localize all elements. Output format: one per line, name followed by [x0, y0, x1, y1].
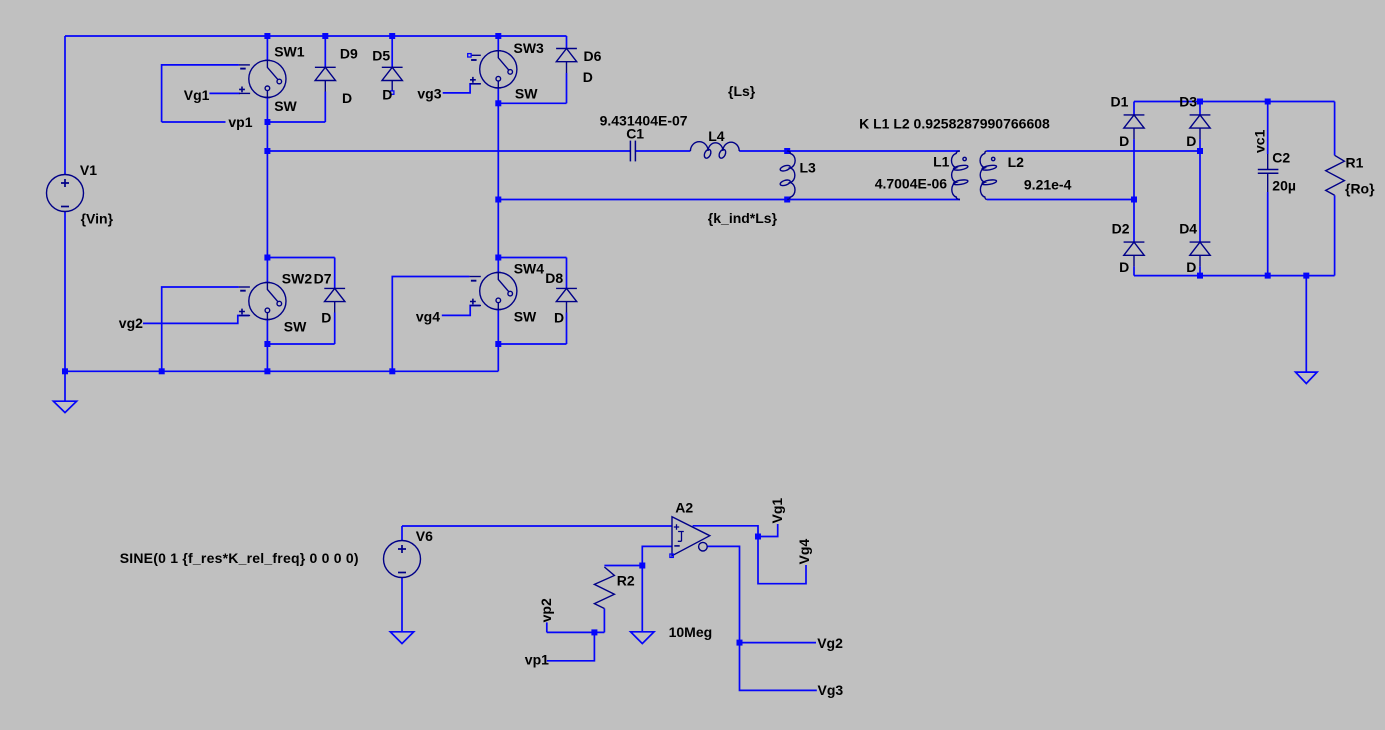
svg-text:D: D	[1119, 259, 1129, 275]
junction output bottom rail / C2	[1265, 273, 1271, 279]
diode D7	[324, 288, 345, 312]
wire SW2 top row to D7	[267, 257, 334, 259]
wire V6 lead top	[401, 526, 403, 541]
wire SW4 top row to D8	[498, 257, 566, 259]
svg-text:SW: SW	[514, 309, 537, 325]
wire L2 top to D3 column	[987, 150, 1200, 152]
svg-text:vc1: vc1	[1251, 129, 1267, 153]
junction output bottom rail / D4	[1197, 273, 1203, 279]
wire D9 column top	[324, 36, 326, 67]
wire bottom rail	[65, 370, 498, 372]
wire D9 column bottom	[324, 92, 326, 123]
svg-text:Vg1: Vg1	[184, 87, 210, 103]
wire vg4 to SW4 plus	[442, 306, 480, 316]
junction top rail / D9	[322, 33, 328, 39]
svg-text:L1: L1	[933, 154, 950, 170]
svg-text:20µ: 20µ	[1272, 178, 1296, 194]
svg-text:D: D	[583, 69, 593, 85]
wire SW2 control loop	[162, 287, 239, 371]
wire output ground stub	[1305, 276, 1307, 373]
junction output bottom rail / ground	[1303, 273, 1309, 279]
svg-text:10Meg: 10Meg	[669, 624, 713, 640]
junction output top rail / C2	[1265, 99, 1271, 105]
svg-text:L4: L4	[708, 128, 725, 144]
svg-text:V1: V1	[80, 162, 97, 178]
wire Vg3 path	[740, 643, 817, 691]
svg-text:SW: SW	[284, 318, 307, 334]
wire SW2 column bottom	[266, 320, 268, 372]
svg-text:D6: D6	[584, 48, 602, 64]
junction A2 minus node	[639, 563, 645, 569]
svg-text:vp1: vp1	[228, 114, 252, 130]
svg-text:C2: C2	[1272, 150, 1290, 166]
junction upper bus / L3 top	[784, 148, 790, 154]
junction vp1 node	[264, 119, 270, 125]
wire lower bus	[498, 199, 960, 201]
junction lower bus / L3 bottom	[784, 197, 790, 203]
wire R1 lead bottom	[1334, 195, 1336, 275]
svg-text:D9: D9	[340, 45, 358, 61]
wire Vg4 path	[758, 537, 806, 584]
label background vp1 top	[226, 115, 265, 129]
wire D3 lead top	[1199, 102, 1201, 115]
wire vp1 row	[162, 121, 326, 123]
diode D4	[1190, 242, 1211, 266]
wire SW4 column bottom	[497, 310, 499, 372]
diode D3	[1190, 115, 1211, 139]
op-amp A2	[672, 517, 710, 556]
junction bottom rail / V1	[62, 368, 68, 374]
wire D1-D2 column middle	[1133, 139, 1135, 242]
junction SW2 top node	[264, 255, 270, 261]
ground V6	[390, 632, 413, 644]
diode D9	[315, 67, 336, 91]
svg-text:D: D	[1186, 259, 1196, 275]
svg-text:A2: A2	[675, 499, 693, 515]
wire Vg1 to SW1 plus	[209, 92, 240, 94]
open pin SW3 minus	[468, 54, 471, 57]
wire D7 column bottom	[334, 313, 336, 345]
switch SW2	[239, 282, 286, 319]
junction lower bus / SW3 column	[495, 197, 501, 203]
wire SW1 column top	[266, 36, 268, 60]
open pin D5 anode	[391, 91, 394, 94]
wire Vg1 stub	[758, 524, 778, 537]
svg-text:SW: SW	[515, 86, 538, 102]
wire D7 column top	[334, 258, 336, 289]
junction Vg2 node	[737, 640, 743, 646]
wire D3-D4 column middle	[1199, 139, 1201, 242]
wire SW2 bottom row	[267, 343, 334, 345]
wire SW4 bottom row	[498, 343, 566, 345]
wire SW1-SW2 column	[266, 97, 268, 282]
wire D5 column top	[391, 36, 393, 67]
diode D1	[1124, 115, 1145, 139]
wire R2 lead bottom	[603, 609, 605, 633]
wire vp2 row to R2	[547, 631, 605, 633]
junction SW2 bottom node	[264, 341, 270, 347]
wire C2 lead bottom	[1267, 192, 1269, 276]
svg-text:{Ro}: {Ro}	[1345, 180, 1375, 196]
wire SW1 control loop	[162, 65, 239, 122]
svg-text:D: D	[321, 309, 331, 325]
inductor L4	[690, 142, 739, 159]
svg-text:D3: D3	[1179, 94, 1197, 110]
svg-text:D7: D7	[314, 270, 332, 286]
wire V1 column bottom	[64, 211, 66, 371]
svg-text:SW3: SW3	[514, 40, 545, 56]
wire V6 to A2 plus input	[402, 525, 672, 527]
junction top rail / SW1	[264, 33, 270, 39]
junction upper bus / SW1 column	[264, 148, 270, 154]
inductor L2 (transformer secondary)	[980, 151, 997, 200]
svg-text:D4: D4	[1179, 221, 1197, 237]
svg-text:vp2: vp2	[538, 598, 554, 622]
svg-text:D5: D5	[372, 47, 390, 63]
wire D8 column bottom	[566, 313, 568, 345]
wire R1 lead top	[1334, 102, 1336, 156]
wire V1 ground stub	[64, 371, 66, 401]
svg-text:SW: SW	[274, 98, 297, 114]
wire A2 bubble output	[707, 546, 739, 642]
wire SW3 bottom row to D6	[498, 102, 566, 104]
wire output bottom rail	[1134, 275, 1335, 277]
ground output	[1296, 372, 1318, 383]
switch SW1	[239, 60, 286, 97]
junction upper bus end / D3 column	[1197, 148, 1203, 154]
wire R2 top row	[604, 565, 642, 567]
wire Vg2 row	[740, 642, 817, 644]
junction SW4 bottom node	[495, 341, 501, 347]
wire D2 lead bottom	[1133, 266, 1135, 275]
svg-text:D: D	[554, 309, 564, 325]
wire C2 lead top	[1267, 102, 1269, 155]
diode D6	[556, 49, 577, 74]
wire D1 lead top	[1133, 102, 1135, 115]
wire V6 lead bottom	[401, 578, 403, 632]
open pin A2 bottom	[670, 554, 673, 557]
wire upper bus left of C1	[267, 150, 630, 152]
ground A2 minus node	[631, 632, 654, 644]
svg-text:Vg1: Vg1	[769, 498, 785, 524]
wire D8 column top	[566, 258, 568, 289]
svg-text:SINE(0 1 {f_res*K_rel_freq} 0: SINE(0 1 {f_res*K_rel_freq} 0 0 0 0)	[120, 550, 359, 566]
svg-text:D: D	[342, 90, 352, 106]
junction SW3 bottom node	[495, 100, 501, 106]
capacitor C1	[630, 141, 635, 162]
voltage source V6	[384, 541, 421, 578]
ground V1	[53, 401, 76, 412]
wire vg3 to SW3 plus	[443, 84, 480, 93]
svg-text:SW4: SW4	[514, 261, 545, 277]
svg-text:vg3: vg3	[417, 86, 441, 102]
svg-text:D: D	[1119, 133, 1129, 149]
junction SW4 top node	[495, 255, 501, 261]
svg-text:K L1 L2 0.9258287990766608: K L1 L2 0.9258287990766608	[859, 115, 1050, 131]
junction bottom rail / SW4 loop	[389, 368, 395, 374]
svg-text:9.21e-4: 9.21e-4	[1024, 177, 1072, 193]
svg-text:{k_ind*Ls}: {k_ind*Ls}	[708, 210, 778, 226]
diode D5	[382, 67, 403, 91]
svg-text:D: D	[1186, 133, 1196, 149]
svg-text:SW2: SW2	[282, 270, 313, 286]
capacitor C2	[1258, 154, 1279, 192]
wire output top rail	[1134, 101, 1335, 103]
resistor R2	[594, 567, 614, 609]
svg-text:{Ls}: {Ls}	[728, 83, 756, 99]
junction bottom rail / SW2 loop	[159, 368, 165, 374]
svg-text:4.7004E-06: 4.7004E-06	[875, 176, 948, 192]
svg-text:SW1: SW1	[274, 43, 305, 59]
wire D4 lead bottom	[1199, 266, 1201, 275]
wire A2 output top	[693, 526, 758, 537]
svg-text:V6: V6	[416, 528, 433, 544]
svg-text:vg2: vg2	[119, 315, 143, 331]
wire upper bus L4 to L1	[739, 150, 960, 152]
resistor R1	[1326, 155, 1345, 195]
voltage source V1	[47, 175, 84, 212]
svg-text:L2: L2	[1008, 154, 1025, 170]
wire vp2 stub	[546, 622, 548, 632]
junction top rail / D5	[389, 33, 395, 39]
wire vp1 drop	[547, 632, 595, 660]
wire A2 minus node to ground	[641, 566, 643, 632]
wire D6 column top	[566, 36, 568, 49]
junction A2 output node	[755, 534, 761, 540]
wire L2 bottom to D1 column	[987, 199, 1134, 201]
svg-text:D8: D8	[545, 270, 563, 286]
wire A2 minus input	[642, 546, 672, 565]
wire SW3 column top	[497, 36, 499, 51]
svg-text:{Vin}: {Vin}	[81, 211, 114, 227]
wire SW4 control loop	[392, 277, 469, 372]
inductor L1 (transformer primary)	[951, 151, 968, 200]
junction vp node	[591, 629, 597, 635]
svg-text:Vg3: Vg3	[818, 682, 844, 698]
wire D6 column bottom	[566, 73, 568, 103]
svg-text:C1: C1	[626, 126, 644, 142]
svg-text:D: D	[382, 87, 392, 103]
svg-text:Vg2: Vg2	[817, 635, 843, 651]
junction output top rail / D3	[1197, 99, 1203, 105]
wire vg2 to SW2 plus	[143, 316, 249, 324]
switch SW4	[470, 272, 517, 309]
junction bottom rail / SW2 column	[264, 368, 270, 374]
svg-text:Vg4: Vg4	[796, 539, 812, 565]
wire top rail	[65, 35, 567, 37]
wire V1 column top	[64, 36, 66, 175]
svg-text:R1: R1	[1346, 155, 1364, 171]
diode D8	[556, 288, 577, 312]
wire upper bus C1 to L4	[635, 150, 690, 152]
svg-text:vp1: vp1	[525, 651, 549, 667]
switch SW3	[470, 51, 517, 88]
svg-text:L3: L3	[800, 160, 817, 176]
wire SW3-SW4 column	[497, 88, 499, 273]
svg-text:vg4: vg4	[416, 309, 440, 325]
svg-text:R2: R2	[617, 573, 635, 589]
junction top rail / SW3	[495, 33, 501, 39]
svg-text:D2: D2	[1112, 221, 1130, 237]
junction lower bus end / D1 column	[1131, 197, 1137, 203]
svg-text:D1: D1	[1111, 94, 1129, 110]
inductor L3	[780, 151, 796, 200]
diode D2	[1124, 242, 1145, 266]
